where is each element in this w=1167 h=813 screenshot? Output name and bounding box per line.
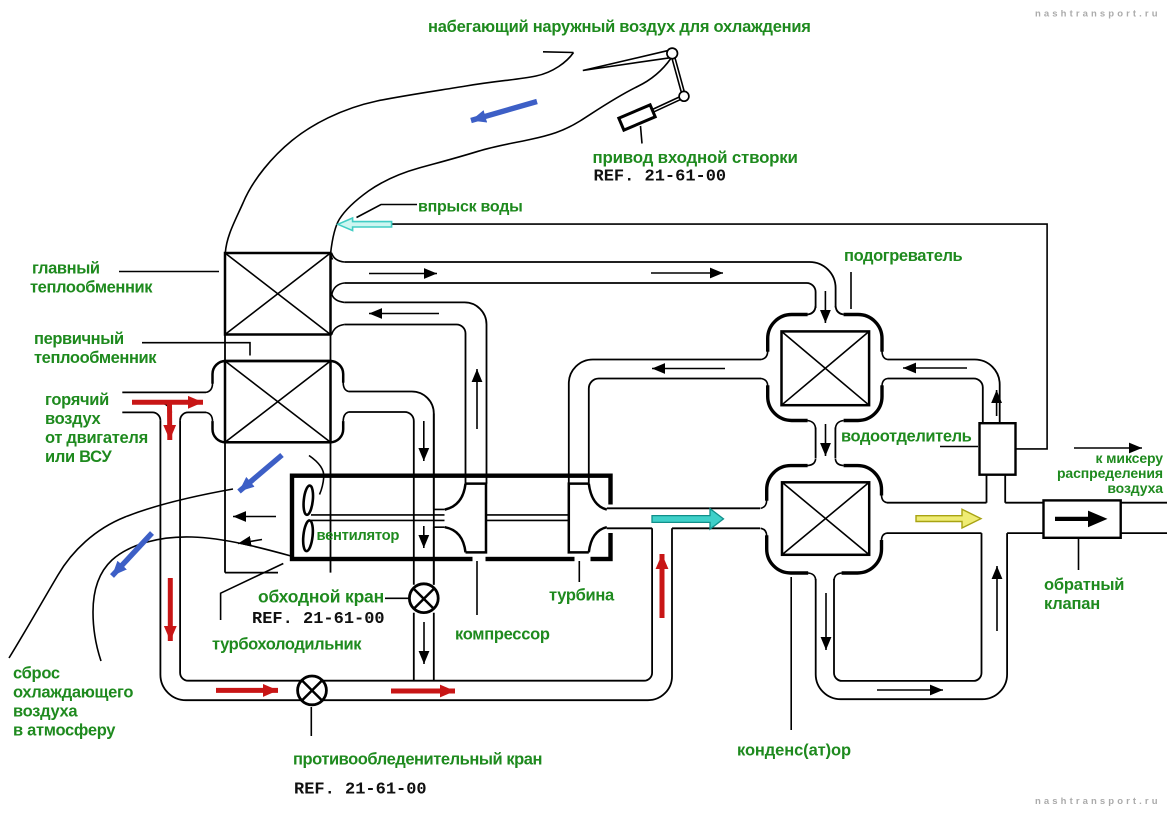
left vertical pipe inner line [180, 420, 652, 680]
svg-text:воздуха: воздуха [1107, 480, 1163, 496]
bypass valve X [414, 589, 434, 609]
heater right pipe outer line [888, 360, 1000, 424]
fan blade lower [302, 520, 314, 552]
blue flow arrow B3 [112, 533, 152, 576]
turbine outlet scrolls [589, 484, 607, 553]
svg-text:от двигателя: от двигателя [45, 429, 148, 447]
compressor inlet scrolls [445, 484, 466, 553]
svg-text:к миксеру: к миксеру [1095, 450, 1163, 466]
svg-text:клапан: клапан [1044, 595, 1100, 613]
flap joint pivot circle upper [667, 48, 678, 59]
heater right pipe inner line [888, 379, 983, 424]
svg-text:первичный: первичный [34, 330, 124, 348]
gap erase left port [209, 384, 217, 421]
check valve arrow [1055, 511, 1108, 528]
svg-text:сброс: сброс [13, 665, 60, 683]
exhaust horn upper wall [9, 489, 233, 658]
flow arrow A11 [825, 424, 827, 456]
leader line water injection label [357, 205, 418, 218]
main HX port2 bottom flare [332, 325, 345, 335]
leader турбина [578, 561, 580, 582]
duct walls below primary heat exchanger [225, 442, 331, 572]
red arrow R3 down left pipe [168, 578, 173, 641]
shaft fan to compressor [311, 515, 445, 521]
actuator body (привод) [619, 105, 655, 130]
turbine outlet pipe top line [607, 507, 760, 509]
yellow flow arrow Y1 [916, 509, 981, 528]
condenser right port flares [882, 496, 888, 541]
svg-text:распределения: распределения [1057, 465, 1163, 481]
water injection arrow (cyan outline) [338, 218, 392, 231]
svg-text:в атмосферу: в атмосферу [13, 722, 116, 740]
leader компрессор [476, 561, 478, 615]
svg-text:охлаждающего: охлаждающего [13, 684, 133, 702]
turbine impeller body [569, 484, 589, 553]
leader конденсатор [790, 577, 792, 730]
flow arrow A7 below bypass valve [423, 622, 425, 664]
red arrow R1 hot air [132, 400, 203, 405]
bypass pipe segment through box, right line with compressor mouth gap [433, 414, 435, 585]
heater top port stubs and flares [808, 306, 844, 315]
bypass valve circle [409, 584, 438, 613]
hot air port flares on primary HX [206, 384, 213, 422]
svg-text:или ВСУ: или ВСУ [45, 448, 113, 466]
condensate loop inner line [834, 533, 982, 681]
svg-text:горячий: горячий [45, 391, 109, 409]
svg-text:nashtransport.ru: nashtransport.ru [1035, 796, 1161, 807]
svg-text:набегающий наружный воздух для: набегающий наружный воздух для охлаждени… [428, 18, 811, 36]
water separator box [980, 423, 1016, 475]
heater square [782, 331, 870, 405]
flow arrow A13 [877, 689, 943, 691]
condenser X diagonals [782, 482, 869, 555]
main HX port1 flares [332, 253, 345, 303]
fan blade upper [302, 485, 314, 515]
svg-text:REF. 21-61-00: REF. 21-61-00 [252, 610, 385, 629]
flap actuator link rod upper [672, 58, 684, 92]
compressor mouth stubs [434, 509, 445, 527]
svg-text:подогреватель: подогреватель [844, 247, 963, 265]
flow split curve at tee [161, 403, 172, 413]
pipe heater left port to turbine, outer line [569, 360, 761, 484]
leader подогреватель [850, 272, 852, 309]
pipe main HX port1 to heater top, inner line [344, 283, 815, 308]
svg-text:противообледенительный кран: противообледенительный кран [293, 751, 542, 769]
flow arrow A3 [369, 313, 439, 315]
flow arrow A15 separator riser [996, 390, 998, 416]
leader line actuator label [641, 126, 643, 144]
leader bypass valve label [385, 597, 409, 599]
leader первичный [142, 343, 250, 356]
flow arrow A8 [903, 367, 967, 369]
svg-text:REF. 21-61-00: REF. 21-61-00 [594, 168, 727, 187]
flow arrow A6 bypass inside box [423, 526, 425, 548]
separator to outlet pipe stubs [987, 475, 1006, 503]
flow arrow A2 [651, 272, 723, 274]
flow arrow A5 bypass down [423, 421, 425, 461]
fan inlet curl [309, 456, 324, 495]
flap joint pivot circle lower [679, 91, 689, 101]
heater-condenser connecting pipe [816, 428, 836, 459]
svg-text:водоотделитель: водоотделитель [841, 428, 972, 446]
flow arrow A4 up compressor discharge [476, 369, 478, 429]
svg-text:впрыск воды: впрыск воды [418, 199, 523, 216]
flow arrow A14 [996, 566, 998, 631]
erase condenser port gaps [808, 462, 844, 470]
condenser outer outline [767, 466, 882, 573]
primary heat exchanger X diagonals [225, 361, 331, 442]
heater right port flares [882, 352, 888, 386]
svg-text:теплообменник: теплообменник [30, 279, 153, 297]
exhaust horn lower wall [93, 537, 291, 661]
condenser bottom port flares [808, 573, 842, 580]
red arrow R5 bottom pipe after valve [391, 689, 455, 694]
heater outer outline [768, 315, 882, 421]
fan exhaust arrow A20 [238, 540, 262, 544]
svg-text:компрессор: компрессор [455, 626, 550, 644]
heater bottom flares [808, 421, 844, 429]
ram air intake outer duct wall [225, 53, 573, 254]
actuator rod to lower joint [652, 97, 680, 112]
svg-text:турбина: турбина [549, 587, 615, 605]
bypass pipe from primary HX right port, outer line [349, 392, 434, 681]
leader главный [119, 271, 219, 273]
shaft compressor to turbine [487, 515, 569, 521]
leader водоотделитель [940, 446, 978, 448]
erase gaps in box border [473, 553, 486, 565]
pipe main HX port1 to heater top, outer line [344, 262, 835, 308]
svg-text:главный: главный [32, 260, 100, 278]
anti-ice valve X [302, 680, 322, 700]
turbine outlet pipe bottom line with riser tee gap [607, 527, 760, 529]
duct walls between heat exchangers [225, 335, 331, 362]
svg-text:конденс(ат)ор: конденс(ат)ор [737, 742, 851, 760]
condenser square [782, 482, 869, 555]
red arrow R6 up to turbine outlet [660, 554, 665, 618]
inlet flap (створка) [583, 51, 669, 71]
anti-ice valve circle [298, 676, 327, 705]
hot air inlet pipe bottom lines and branch [122, 412, 206, 420]
pipe heater left port to turbine, inner line [589, 379, 761, 484]
gap erase right port [339, 383, 347, 421]
red arrow R4 bottom pipe [216, 688, 278, 693]
flow arrow A10 into heater [824, 291, 826, 323]
intake upper lip line [543, 51, 574, 54]
svg-text:турбохолодильник: турбохолодильник [212, 636, 362, 654]
svg-text:обходной кран: обходной кран [258, 587, 384, 607]
red arrow R2 branch down [167, 404, 172, 440]
turbo cooler unit thick box [292, 476, 611, 559]
flow arrow A9 [652, 368, 725, 370]
outlet pipe to mixer bottom line [887, 532, 1167, 534]
main heat exchanger X diagonals [225, 253, 331, 335]
fan exhaust arrow A19 [233, 516, 276, 518]
left vertical pipe outer line [160, 420, 672, 700]
flow arrow A12 [825, 593, 827, 650]
leader турбохолодильник [221, 564, 284, 621]
condensate loop outer line [816, 533, 1007, 699]
svg-text:воздуха: воздуха [13, 703, 78, 721]
primary HX right port flares [343, 383, 348, 422]
svg-text:обратный: обратный [1044, 576, 1124, 594]
bypass pipe inner line [349, 412, 414, 681]
svg-text:REF. 21-61-00: REF. 21-61-00 [294, 781, 427, 800]
leader anti-ice valve label [310, 707, 312, 736]
cyan arrow C2 turbine outlet [652, 509, 724, 530]
svg-text:вентилятор: вентилятор [317, 528, 400, 544]
blue flow arrow B1 in intake [471, 102, 537, 121]
svg-text:привод входной створки: привод входной створки [593, 148, 798, 167]
compressor impeller body [466, 484, 487, 553]
pipe compressor to main HX port2, inner line [344, 325, 465, 484]
blue flow arrow B2 [239, 455, 282, 492]
water injection line from separator [392, 224, 1048, 449]
primary heat exchanger outer outline [213, 361, 344, 442]
check valve box [1044, 500, 1121, 537]
flow arrow A17 to mixer [1074, 447, 1142, 449]
heater left port flares [761, 352, 768, 386]
ram air inner duct wall [331, 59, 671, 260]
erase heater port gaps [808, 311, 844, 319]
hot air inlet pipe top line [122, 391, 206, 393]
flow arrow A1 [369, 273, 437, 275]
heater X diagonals [782, 331, 870, 405]
pipe compressor to main HX port2, outer line [344, 302, 486, 483]
svg-text:воздух: воздух [45, 410, 102, 428]
svg-text:nashtransport.ru: nashtransport.ru [1035, 9, 1161, 20]
primary heat exchanger square [225, 361, 331, 442]
condenser top flares [808, 459, 844, 466]
condenser left port flares [761, 501, 767, 536]
outlet pipe to mixer top line [887, 502, 1167, 504]
leader check valve label [1078, 538, 1080, 570]
svg-text:теплообменник: теплообменник [34, 349, 157, 367]
main heat exchanger square [225, 253, 331, 335]
